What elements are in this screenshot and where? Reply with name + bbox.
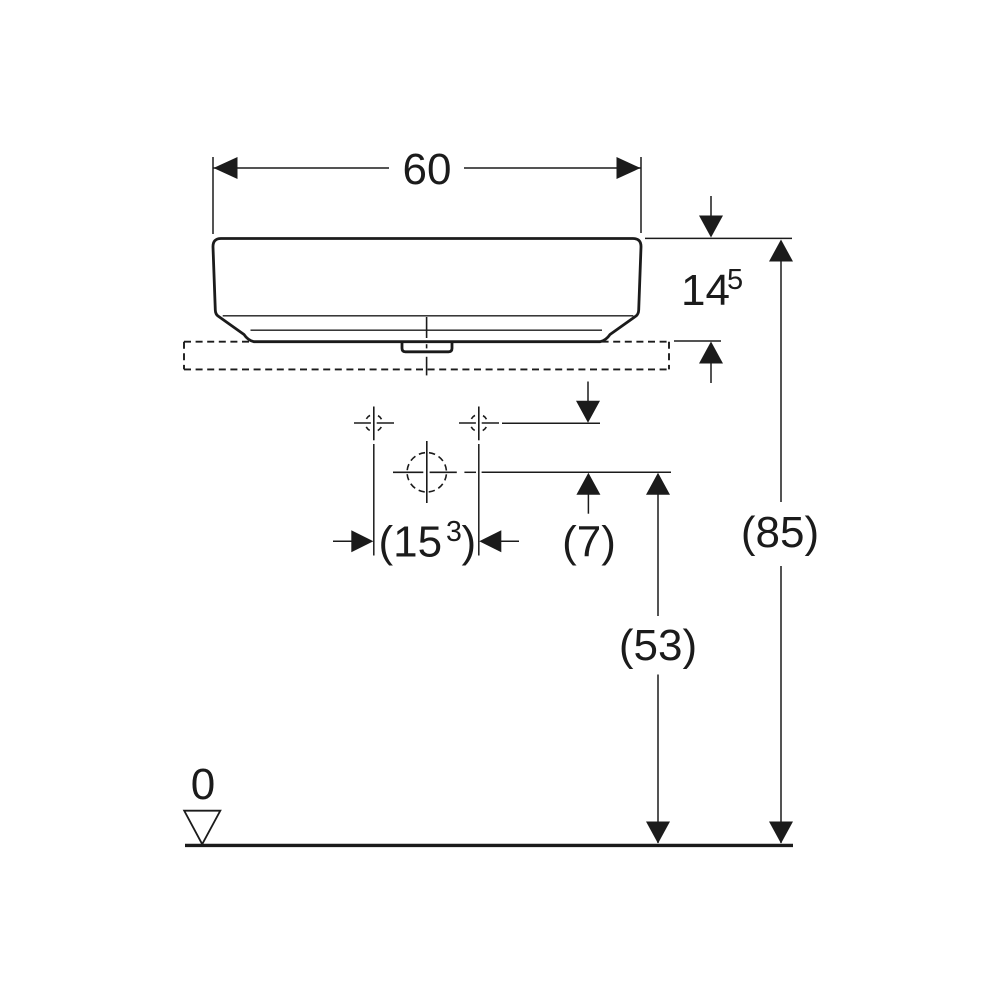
- dimension 60 line right segment: [464, 167, 641, 169]
- dimension 14_5 bottom reference line: [674, 340, 721, 342]
- svg-text:5: 5: [727, 264, 743, 296]
- dimension 60 left arrowhead: [214, 157, 238, 179]
- dimension 53 line upper segment: [657, 493, 659, 616]
- basin top reference line to (85): [645, 237, 792, 239]
- main faucet hole: [393, 441, 457, 503]
- dimension 53 line lower segment: [657, 675, 659, 844]
- small faucet hole left: [354, 407, 394, 441]
- dimension 15_3 left arrowhead: [351, 530, 373, 552]
- svg-text:(7): (7): [562, 518, 616, 567]
- svg-text:(53): (53): [619, 621, 697, 670]
- svg-text:60: 60: [403, 145, 452, 194]
- washbasin base contour line: [251, 329, 603, 331]
- svg-text:): ): [462, 518, 477, 567]
- basin vertical centerline: [426, 317, 428, 375]
- svg-text:(15: (15: [379, 518, 443, 567]
- dimension 60 line left segment: [213, 167, 389, 169]
- washbasin outline: [213, 239, 641, 342]
- dimension 7 top arrow stem: [587, 382, 589, 404]
- dimension 14_5 top arrowhead: [699, 216, 723, 238]
- dimension 7 top reference line: [502, 422, 600, 424]
- washbasin inner rim line: [223, 315, 634, 317]
- dimension 14_5 top arrow stem: [710, 196, 712, 218]
- dimension 14_5 bottom arrowhead: [699, 342, 723, 364]
- dimension 7 top arrowhead: [576, 401, 600, 423]
- drain fitting: [402, 342, 452, 352]
- dimension 53 top arrowhead: [646, 473, 670, 495]
- dimension 85 line lower segment: [780, 566, 782, 843]
- datum triangle: [184, 811, 220, 845]
- dimension 7 bottom arrowhead: [576, 473, 600, 495]
- small faucet hole right: [459, 407, 499, 441]
- dimension 7 bottom arrow stem: [587, 493, 589, 514]
- dimension 60 right extension line: [640, 157, 642, 233]
- dimension 60 left extension line: [212, 157, 214, 234]
- dimension 85 bottom arrowhead: [769, 822, 793, 844]
- dimension 85 line upper segment: [780, 260, 782, 502]
- floor baseline: [185, 844, 793, 847]
- countertop dashed outline: [184, 342, 669, 370]
- dimension 60 right arrowhead: [617, 157, 641, 179]
- svg-text:3: 3: [446, 516, 462, 548]
- svg-text:14: 14: [681, 266, 730, 315]
- dimension 15_3 right arrowhead: [479, 530, 501, 552]
- dimension 15_3 right arrow stem: [500, 540, 519, 542]
- faucet hole reference line to (53): [464, 471, 476, 473]
- dimension 15_3 right extension line: [478, 444, 480, 556]
- dimension 15_3 left arrow stem: [333, 540, 353, 542]
- svg-text:0: 0: [191, 760, 215, 809]
- svg-text:(85): (85): [741, 508, 819, 557]
- dimension 14_5 bottom arrow stem: [710, 362, 712, 383]
- dimension 15_3 left extension line: [373, 444, 375, 556]
- dimension 85 top arrowhead: [769, 240, 793, 262]
- dimension 53 bottom arrowhead: [646, 822, 670, 844]
